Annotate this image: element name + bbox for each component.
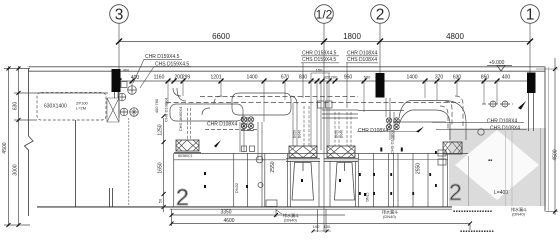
svg-text:3: 3 — [115, 7, 124, 24]
svg-text:1800: 1800 — [343, 32, 361, 41]
svg-text:4600: 4600 — [223, 218, 234, 224]
svg-text:▪▪▪▪▪▪▪▪▪▪▪▪▪▪▪: ▪▪▪▪▪▪▪▪▪▪▪▪▪▪▪ — [453, 209, 492, 215]
svg-text:630: 630 — [453, 75, 462, 81]
svg-text:3000: 3000 — [13, 164, 19, 175]
svg-text:1: 1 — [526, 7, 535, 24]
svg-text:D050: D050 — [335, 130, 339, 138]
svg-text:50: 50 — [158, 198, 163, 203]
svg-text:400: 400 — [502, 75, 511, 81]
svg-text:630: 630 — [13, 102, 19, 111]
svg-text:D040: D040 — [298, 130, 302, 138]
svg-text:4500: 4500 — [2, 142, 8, 153]
svg-text:580: 580 — [364, 75, 371, 80]
svg-text:1/2: 1/2 — [316, 8, 333, 22]
svg-text:1400: 1400 — [246, 75, 257, 81]
svg-text:2550: 2550 — [270, 161, 276, 172]
svg-text:460: 460 — [123, 69, 129, 73]
svg-text:1650: 1650 — [158, 162, 164, 173]
svg-text:670: 670 — [281, 75, 290, 81]
svg-text:2: 2 — [449, 179, 462, 205]
svg-text:CHR D108X4: CHR D108X4 — [207, 122, 238, 128]
svg-text:DN40: DN40 — [245, 116, 250, 127]
svg-text:200: 200 — [331, 75, 338, 80]
svg-text:CHR D108X4: CHR D108X4 — [358, 128, 389, 134]
svg-text:DN15: DN15 — [366, 192, 370, 201]
svg-text:3350: 3350 — [220, 210, 231, 216]
svg-text:2550: 2550 — [416, 163, 422, 174]
svg-text:2: 2 — [376, 7, 385, 24]
svg-text:CHS D108X4: CHS D108X4 — [390, 129, 395, 154]
svg-text:1400: 1400 — [406, 75, 417, 81]
svg-text:630X1400: 630X1400 — [44, 104, 67, 110]
svg-text:400: 400 — [131, 75, 140, 81]
svg-text:(DN40): (DN40) — [383, 214, 397, 219]
svg-text:▪▪: ▪▪ — [488, 158, 492, 164]
svg-text:4800: 4800 — [446, 32, 464, 41]
svg-text:150: 150 — [316, 68, 323, 73]
svg-text:950: 950 — [344, 75, 353, 81]
svg-text:1201: 1201 — [210, 75, 221, 81]
svg-text:2: 2 — [176, 184, 189, 210]
svg-text:CHS D159X4.5: CHS D159X4.5 — [302, 57, 336, 63]
svg-text:CHR D108X4: CHR D108X4 — [487, 119, 518, 125]
svg-text:6600: 6600 — [212, 32, 230, 41]
svg-text:DN32: DN32 — [234, 182, 239, 193]
svg-text:850: 850 — [481, 75, 490, 81]
svg-text:CHS D108X4: CHS D108X4 — [347, 57, 377, 63]
svg-text:1250: 1250 — [158, 124, 164, 135]
svg-text:L=2M: L=2M — [76, 106, 86, 111]
svg-text:+9.000: +9.000 — [489, 60, 505, 66]
svg-text:D050: D050 — [293, 130, 297, 138]
svg-text:D040: D040 — [340, 130, 344, 138]
svg-text:299: 299 — [182, 75, 191, 81]
svg-text:400 780: 400 780 — [154, 98, 159, 113]
svg-text:(DN40): (DN40) — [512, 212, 526, 217]
svg-text:CHS UK60X4: CHS UK60X4 — [178, 106, 183, 131]
svg-text:CHS D108X4: CHS D108X4 — [490, 126, 520, 132]
svg-text:100: 100 — [313, 224, 320, 229]
svg-text:4500: 4500 — [553, 149, 559, 160]
svg-text:1160: 1160 — [154, 75, 165, 81]
svg-text:(DN40): (DN40) — [284, 218, 298, 223]
svg-text:CHS D108X4: CHS D108X4 — [164, 97, 169, 122]
svg-text:370: 370 — [435, 75, 444, 81]
svg-text:▪▪▪▪▪▪▪▪▪▪▪▪▪: ▪▪▪▪▪▪▪▪▪▪▪▪▪ — [460, 229, 494, 235]
svg-text:L=400: L=400 — [494, 190, 508, 196]
svg-text:80380C1: 80380C1 — [178, 154, 193, 158]
svg-text:100: 100 — [324, 224, 331, 229]
svg-text:830: 830 — [299, 75, 308, 81]
